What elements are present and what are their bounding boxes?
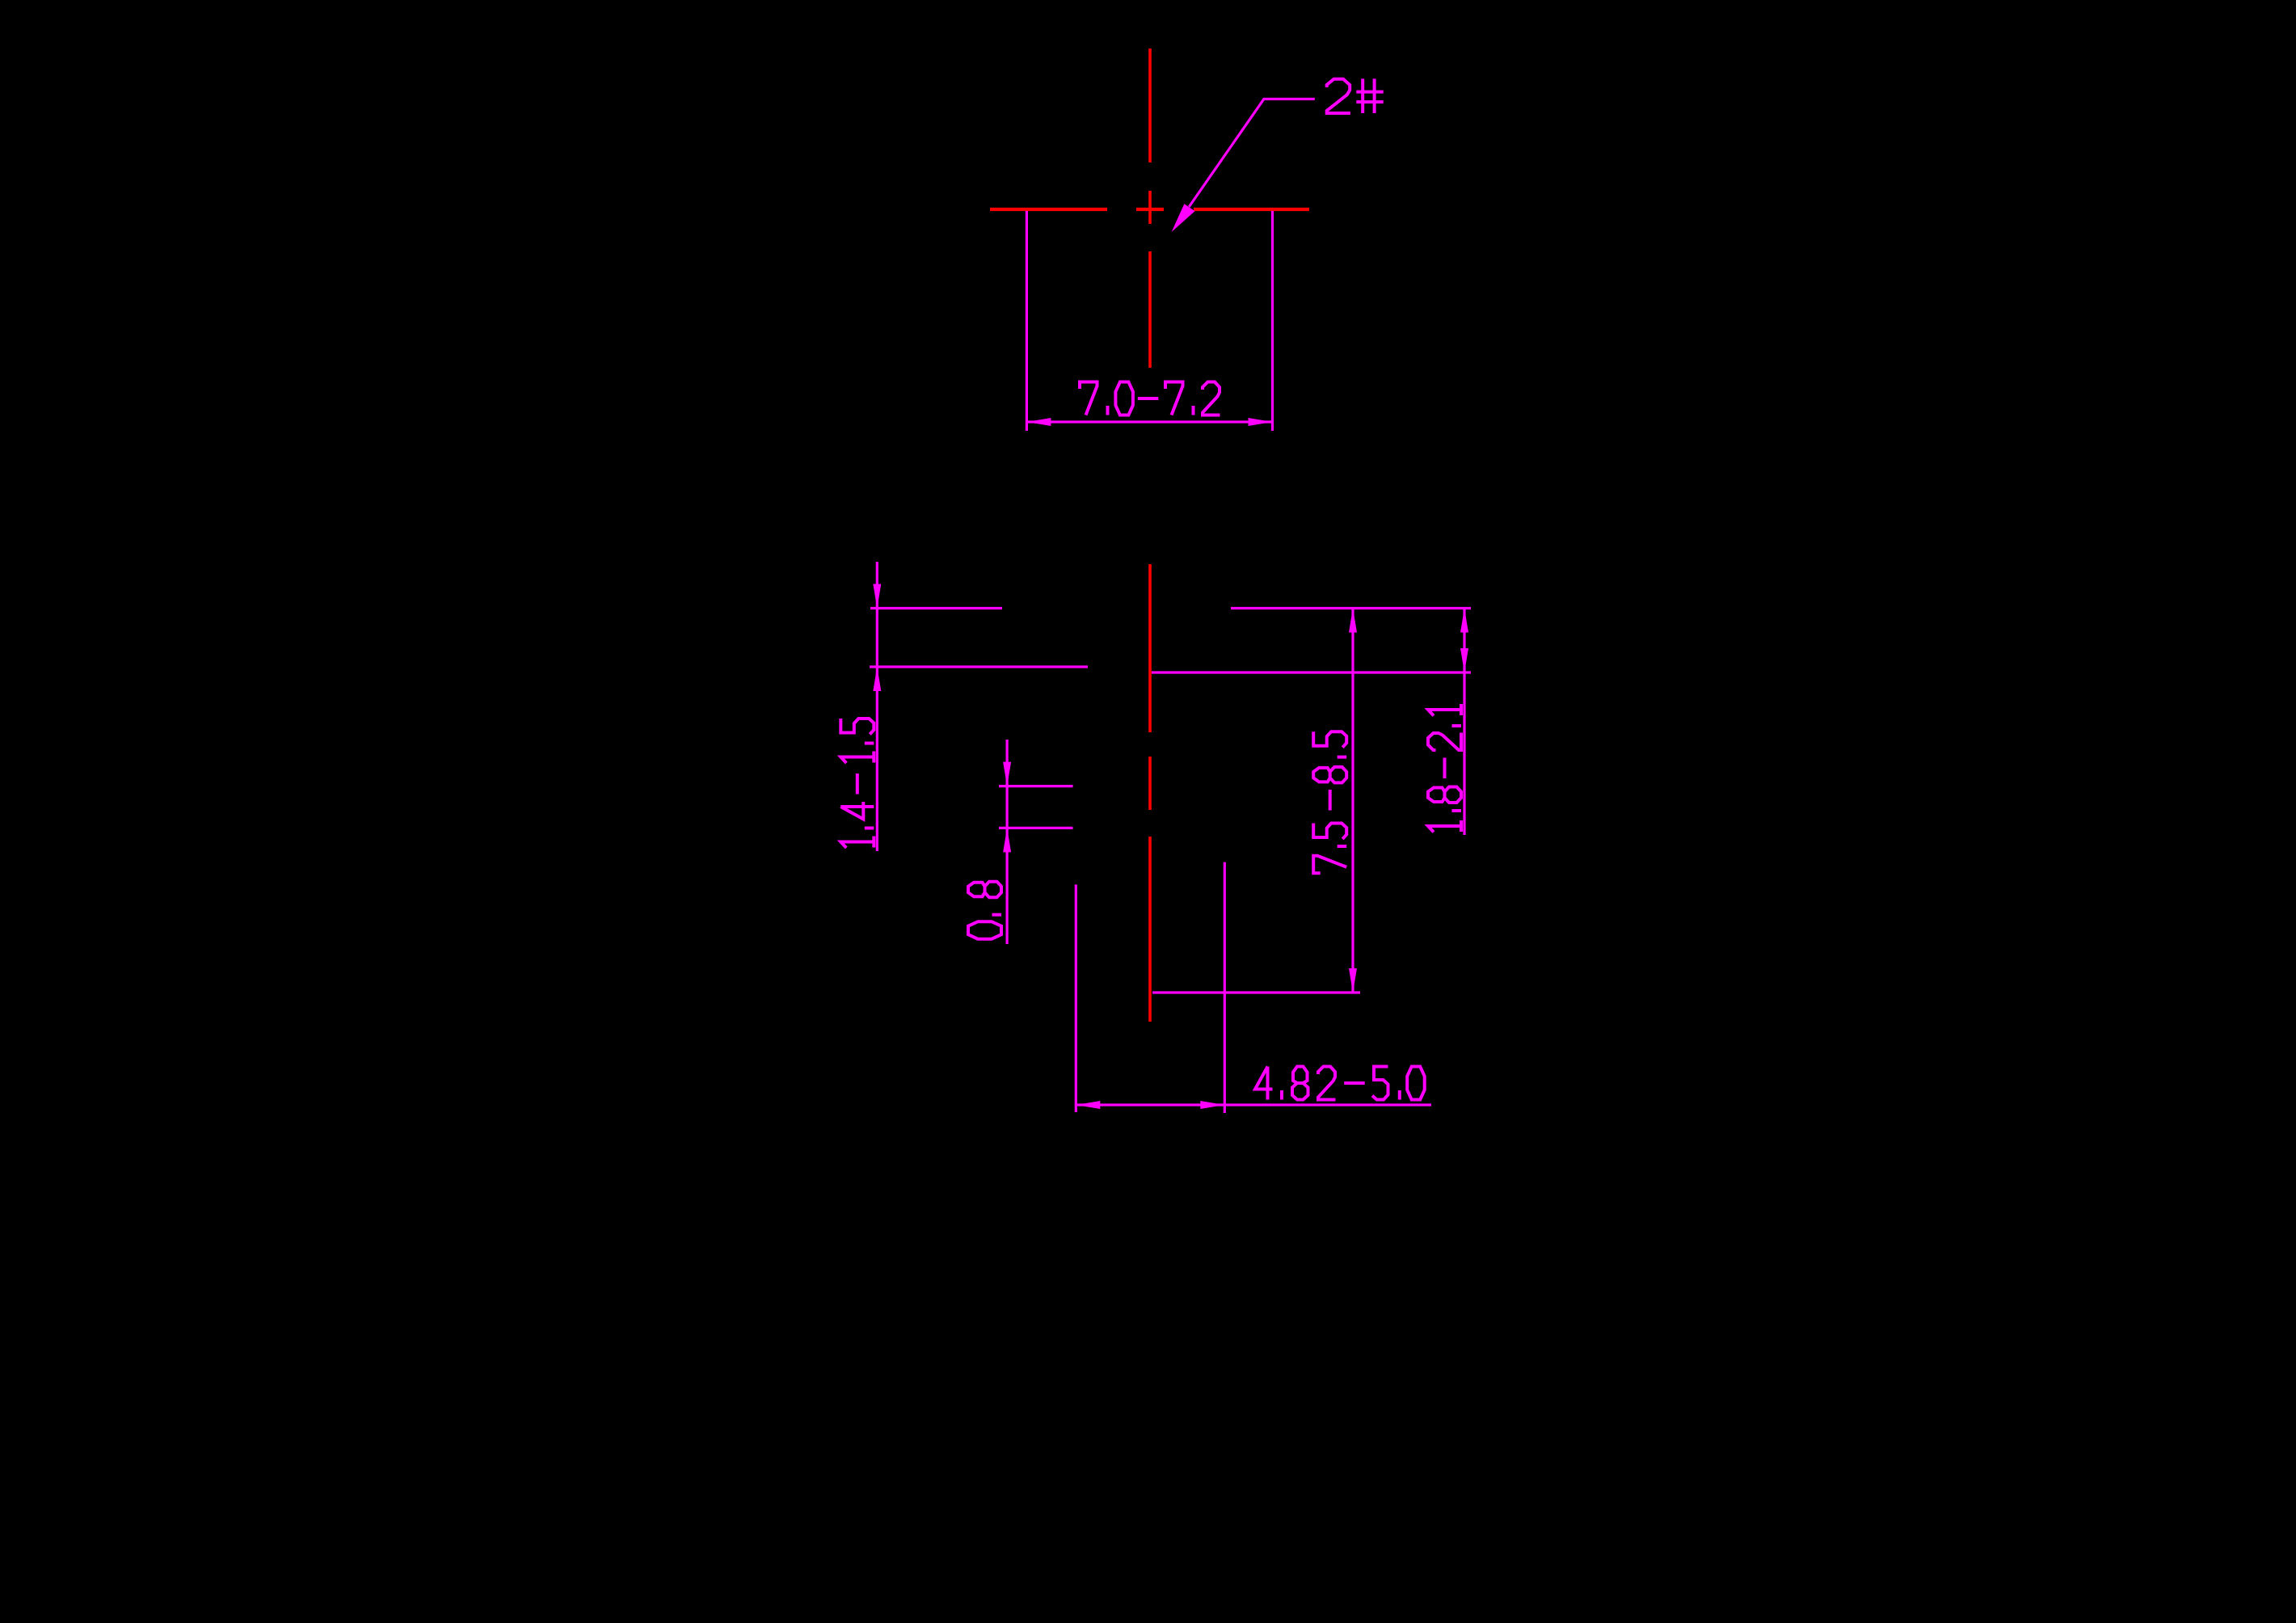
arrowhead left of dim 7.0-7.2 bbox=[1026, 418, 1051, 426]
arrowhead up at y752.5 (7.5-8.5) bbox=[1349, 609, 1357, 633]
small step line upper (0.8 feature) bbox=[999, 785, 1073, 787]
dimension text 4.82-5.0 bbox=[1255, 1067, 1425, 1100]
small step line lower (0.8 feature) bbox=[999, 827, 1073, 829]
dimension 0.8 stem bbox=[1005, 740, 1008, 944]
left lower edge line bbox=[870, 665, 1088, 668]
red horizontal centerline (top view), y=259 bbox=[990, 208, 1309, 211]
dimension 1.4-1.5 stem bbox=[876, 562, 878, 851]
arrowhead up at y825 (1.4-1.5) bbox=[873, 667, 881, 691]
arrowhead up at y1024.4 (0.8) bbox=[1003, 828, 1011, 852]
arrowhead left-pointing at x1331.3 (4.82-5.0) bbox=[1076, 1101, 1100, 1109]
red vertical centerline (section view), x=1423 bbox=[1148, 564, 1152, 1022]
arrowhead down at y1228 (7.5-8.5) bbox=[1349, 968, 1357, 993]
right lower edge line bbox=[1152, 671, 1471, 673]
dimension line 4.82-5.0 bbox=[1076, 1103, 1431, 1106]
dimension 7.5-8.5 stem bbox=[1351, 609, 1354, 993]
left part edge / extension line bbox=[1026, 211, 1028, 431]
dimension text 0.8 (rotated) bbox=[968, 882, 1001, 939]
red vertical centerline (top view), x=1423 bbox=[1148, 48, 1152, 368]
arrowhead down at y832 (1.8-2.1) bbox=[1460, 648, 1468, 672]
right part edge / extension line bbox=[1271, 211, 1274, 431]
bottom edge line bbox=[1152, 991, 1360, 993]
label text 2# bbox=[1327, 78, 1384, 113]
arrowhead right-pointing at x1515.3 (4.82-5.0) bbox=[1200, 1101, 1224, 1109]
arrowhead right of dim 7.0-7.2 bbox=[1249, 418, 1273, 426]
arrowhead up at y752.5 (1.8-2.1) bbox=[1460, 609, 1468, 633]
extension line middle (4.82-5.0) bbox=[1224, 862, 1226, 1113]
arrowhead down at y972.6 (0.8) bbox=[1003, 762, 1011, 786]
leader line to 2# bbox=[1189, 99, 1315, 207]
dimension text 1.8-2.1 (rotated) bbox=[1428, 704, 1461, 833]
dimension line 7.0-7.2 bbox=[1026, 420, 1272, 423]
dimension text 7.5-8.5 (rotated) bbox=[1313, 731, 1346, 873]
leader arrowhead bbox=[1172, 204, 1195, 232]
left upper edge line bbox=[870, 607, 1002, 609]
dimension text 1.4-1.5 (rotated) bbox=[840, 719, 874, 848]
dimension text 7.0-7.2 bbox=[1080, 382, 1220, 415]
arrowhead down at y752.5 (1.4-1.5) bbox=[873, 584, 881, 609]
extension line left (4.82-5.0) bbox=[1075, 884, 1077, 1112]
dimension 1.8-2.1 stem bbox=[1463, 609, 1465, 836]
right upper edge line bbox=[1231, 607, 1471, 609]
